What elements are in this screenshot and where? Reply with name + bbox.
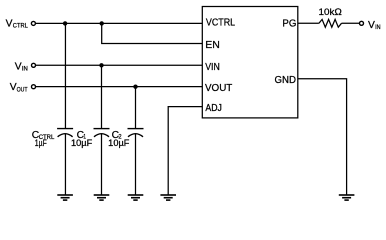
- svg-text:VOUT: VOUT: [205, 83, 233, 94]
- svg-text:V: V: [6, 19, 13, 30]
- svg-text:10µF: 10µF: [71, 138, 93, 148]
- svg-text:VCTRL: VCTRL: [206, 18, 235, 29]
- svg-text:GND: GND: [275, 75, 297, 86]
- svg-text:IN: IN: [375, 24, 380, 31]
- svg-text:10kΩ: 10kΩ: [319, 7, 343, 18]
- svg-text:ADJ: ADJ: [205, 103, 222, 114]
- svg-text:OUT: OUT: [17, 86, 28, 93]
- svg-text:V: V: [368, 20, 375, 31]
- svg-text:1µF: 1µF: [35, 138, 47, 148]
- svg-text:V: V: [15, 62, 22, 73]
- svg-text:10µF: 10µF: [108, 138, 130, 148]
- svg-text:EN: EN: [205, 40, 220, 51]
- svg-text:IN: IN: [22, 66, 28, 73]
- svg-text:PG: PG: [282, 18, 296, 29]
- svg-text:CTRL: CTRL: [13, 23, 29, 30]
- svg-text:VIN: VIN: [205, 62, 220, 73]
